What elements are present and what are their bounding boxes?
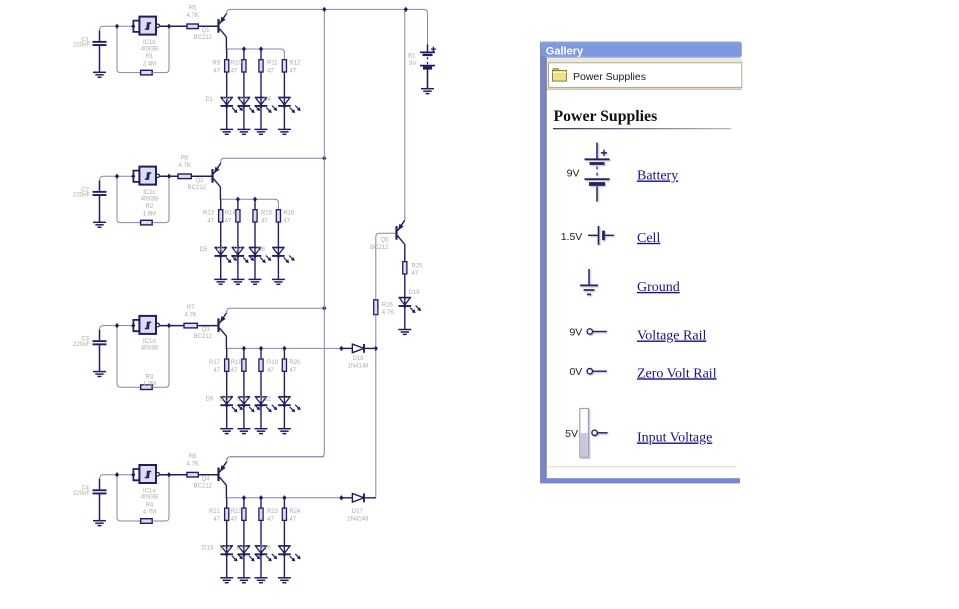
gallery folder icon bbox=[553, 69, 567, 81]
wire IC1a output to R8 to Q4 base bbox=[160, 474, 218, 476]
transistor Q4 BC212 PNP bbox=[219, 462, 227, 486]
svg-text:R9: R9 bbox=[212, 61, 220, 67]
LED D16 bbox=[278, 546, 291, 554]
transistor Q2 BC212 PNP bbox=[213, 163, 221, 187]
resistor R7 4.7K bbox=[184, 323, 197, 328]
svg-text:Battery: Battery bbox=[637, 169, 678, 184]
node junction Q5 emitter at top rail bbox=[404, 7, 408, 12]
LED D11 bbox=[255, 397, 268, 405]
capacitor C1 bbox=[93, 41, 107, 46]
LED D5 bbox=[214, 248, 227, 256]
svg-text:D8: D8 bbox=[257, 247, 265, 253]
svg-text:R23: R23 bbox=[267, 509, 279, 515]
node junction input IC2 bbox=[115, 174, 119, 179]
wire feedback right of R3 bbox=[152, 326, 169, 388]
wire Q3 emitter pin bbox=[226, 312, 228, 314]
ground below D8 bbox=[272, 279, 285, 284]
svg-text:9V: 9V bbox=[567, 167, 580, 179]
wire rail through R11 and D3 to ground bbox=[260, 49, 262, 129]
node junction rail 2 col3 bbox=[253, 197, 257, 202]
svg-text:R16: R16 bbox=[283, 211, 295, 217]
svg-text:D14: D14 bbox=[219, 546, 231, 552]
wire rail through R17 and D9 to ground bbox=[226, 348, 228, 428]
resistor R10 47 bbox=[242, 60, 246, 72]
svg-text:47: 47 bbox=[289, 368, 296, 374]
svg-text:R13: R13 bbox=[203, 211, 215, 217]
op-amp IC1a schmitt NAND gate 4093B bbox=[139, 465, 156, 483]
node junction rail 2 col2 bbox=[236, 197, 240, 202]
svg-text:47: 47 bbox=[225, 219, 232, 225]
svg-text:Ground: Ground bbox=[637, 280, 680, 295]
svg-text:9V: 9V bbox=[569, 327, 582, 339]
wire feedback left of R3 bbox=[117, 326, 141, 388]
node junction rail 3 col4 bbox=[282, 346, 286, 351]
svg-text:1N4148: 1N4148 bbox=[347, 516, 369, 522]
wire Q3 collector to LED rail 3 bbox=[225, 336, 227, 349]
svg-text:BC212: BC212 bbox=[370, 245, 389, 251]
ground below C2 bbox=[93, 222, 106, 227]
wire C2 top pin bbox=[99, 181, 101, 191]
resistor R17 47 bbox=[225, 359, 229, 371]
wire rail through R21 and D13 to ground bbox=[226, 498, 228, 578]
ground below B1 bbox=[421, 89, 434, 94]
svg-text:D15: D15 bbox=[236, 546, 248, 552]
transistor Q5 BC212 PNP bbox=[397, 220, 405, 244]
gallery symbol: cell 1.5V bbox=[588, 226, 614, 245]
node junction D17 anode bbox=[339, 495, 343, 500]
svg-text:R20: R20 bbox=[289, 360, 301, 366]
wire Q5 base to R26 bbox=[376, 233, 396, 299]
resistor R13 47 bbox=[219, 210, 223, 222]
gallery symbol: voltage rail 9V bbox=[587, 329, 607, 334]
wire R26 to steering diodes D18 D17 bbox=[375, 315, 377, 498]
node junction rail 1 col2 bbox=[242, 46, 246, 51]
wire rail through R16 and D8 to ground bbox=[277, 210, 279, 280]
svg-text:Q2: Q2 bbox=[195, 178, 204, 184]
svg-text:D2: D2 bbox=[223, 97, 231, 103]
ground below D7 bbox=[249, 279, 262, 284]
wire LED rail block 4 to steering diode bbox=[227, 497, 342, 499]
wire Q1 emitter pin bbox=[226, 12, 228, 15]
node junction output IC3 bbox=[167, 323, 171, 328]
wire C4 top pin bbox=[99, 479, 101, 489]
svg-text:0V: 0V bbox=[569, 366, 582, 378]
svg-text:47: 47 bbox=[213, 69, 220, 75]
capacitor C3 bbox=[93, 340, 107, 345]
svg-text:Gallery: Gallery bbox=[546, 46, 584, 58]
svg-text:R11: R11 bbox=[267, 61, 278, 67]
svg-text:Cell: Cell bbox=[637, 231, 660, 246]
svg-text:220nF: 220nF bbox=[73, 193, 90, 199]
ground below D14 bbox=[237, 578, 250, 583]
ground below D6 bbox=[231, 279, 244, 284]
svg-text:47: 47 bbox=[231, 69, 238, 75]
resistor R8 4.7K bbox=[187, 472, 198, 477]
resistor R2 1.8M feedback bbox=[141, 220, 153, 225]
node junction rail 4 col2 bbox=[242, 495, 246, 500]
node junction at IC1d input pins bbox=[131, 323, 135, 328]
svg-text:BC212: BC212 bbox=[194, 334, 213, 340]
wire cap C4 to ground bbox=[99, 494, 101, 521]
op-amp IC1d schmitt NAND gate 4093B bbox=[139, 316, 156, 334]
svg-text:IC1c: IC1c bbox=[143, 190, 155, 196]
wire Q1 collector to LED rail 1 bbox=[225, 37, 227, 50]
wire V+ top rail to battery B1 bbox=[227, 9, 428, 45]
svg-text:47: 47 bbox=[412, 271, 419, 277]
LED D4 bbox=[278, 98, 291, 106]
wire Q5 collector through R25 and D19 to ground bbox=[404, 244, 406, 330]
svg-text:R14: R14 bbox=[225, 211, 237, 217]
svg-text:D6: D6 bbox=[217, 247, 225, 253]
svg-text:47: 47 bbox=[289, 69, 296, 75]
svg-text:D16: D16 bbox=[260, 546, 272, 552]
svg-text:4.7K: 4.7K bbox=[382, 310, 394, 316]
svg-text:D19: D19 bbox=[408, 290, 420, 296]
svg-text:Q4: Q4 bbox=[201, 476, 210, 482]
wire D18 cathode to R26 net bbox=[364, 347, 376, 349]
node junction rail 4 col3 bbox=[259, 495, 263, 500]
node junction V+ rail block 3 bbox=[322, 306, 326, 311]
svg-text:Zero Volt Rail: Zero Volt Rail bbox=[637, 366, 717, 381]
node junction input IC1 bbox=[115, 24, 119, 29]
svg-text:47: 47 bbox=[207, 219, 214, 225]
LED D12 bbox=[278, 397, 291, 405]
ground below D3 bbox=[255, 129, 268, 134]
node junction input IC3 bbox=[115, 323, 119, 328]
wire cap C3 to IC input, net IN3 bbox=[100, 326, 134, 331]
wire IC1d output to R7 to Q3 base bbox=[160, 325, 218, 327]
resistor R21 47 bbox=[225, 508, 229, 520]
wire cap C1 to ground bbox=[99, 45, 101, 72]
resistor R3 1.3M feedback bbox=[141, 385, 153, 390]
capacitor C4 bbox=[93, 489, 107, 494]
svg-text:9V: 9V bbox=[409, 61, 416, 67]
node junction V+ rail block 2 bbox=[322, 156, 326, 161]
svg-text:D13: D13 bbox=[202, 546, 214, 552]
node junction input IC4 bbox=[115, 472, 119, 477]
wire rail through R19 and D11 to ground bbox=[260, 348, 262, 428]
node junction output IC1 bbox=[167, 24, 171, 29]
wire rail through R12 and D4 to ground bbox=[283, 60, 285, 130]
resistor R1 2.4M feedback bbox=[141, 70, 153, 75]
wire Q4 emitter pin bbox=[226, 460, 228, 462]
svg-text:BC212: BC212 bbox=[194, 483, 213, 489]
svg-text:1.8M: 1.8M bbox=[143, 211, 156, 217]
gallery window frame bbox=[540, 42, 742, 484]
svg-text:Input Voltage: Input Voltage bbox=[637, 431, 712, 446]
svg-text:R8: R8 bbox=[189, 454, 197, 460]
gallery symbol: battery 9V bbox=[585, 143, 610, 202]
node junction output IC4 bbox=[167, 472, 171, 477]
resistor R26 4.7K bbox=[374, 300, 378, 315]
svg-text:R17: R17 bbox=[209, 360, 221, 366]
resistor R20 47 bbox=[282, 359, 286, 371]
wire IC1c output to R6 to Q2 base bbox=[160, 175, 212, 177]
wire feedback left of R4 bbox=[117, 475, 141, 521]
ground below D15 bbox=[255, 578, 268, 583]
resistor R6 4.7K bbox=[178, 174, 191, 179]
diode D17 1N4148 bbox=[352, 493, 364, 502]
svg-text:R25: R25 bbox=[412, 263, 424, 269]
node junction rail 3 col3 bbox=[259, 346, 263, 351]
svg-text:47: 47 bbox=[261, 219, 268, 225]
wire cap C2 to ground bbox=[99, 195, 101, 222]
wire C1 top pin bbox=[99, 31, 101, 41]
svg-text:47: 47 bbox=[267, 368, 274, 374]
node junction rail 3 col2 bbox=[242, 346, 246, 351]
resistor R16 47 bbox=[276, 210, 280, 222]
svg-text:D12: D12 bbox=[260, 397, 272, 403]
wire D18 anode pin bbox=[341, 347, 352, 349]
diode D18 1N4148 bbox=[352, 344, 364, 353]
resistor R24 47 bbox=[282, 508, 286, 520]
wire rail through R18 and D10 to ground bbox=[243, 348, 245, 428]
svg-text:47: 47 bbox=[289, 517, 296, 523]
node junction rail 4 col4 bbox=[282, 495, 286, 500]
svg-text:R2: R2 bbox=[146, 204, 154, 210]
ground below C4 bbox=[93, 521, 106, 526]
svg-text:D5: D5 bbox=[200, 247, 208, 253]
LED D19 bbox=[399, 298, 412, 306]
svg-text:D3: D3 bbox=[240, 97, 248, 103]
resistor R11 47 bbox=[259, 60, 263, 72]
svg-text:R1: R1 bbox=[146, 54, 154, 60]
ground below D11 bbox=[255, 429, 268, 434]
svg-text:1.5V: 1.5V bbox=[561, 231, 583, 243]
wire feedback left of R2 bbox=[117, 176, 141, 222]
svg-text:4.7K: 4.7K bbox=[178, 163, 190, 169]
svg-text:R19: R19 bbox=[267, 360, 279, 366]
wire rail through R10 and D2 to ground bbox=[243, 49, 245, 129]
LED D3 bbox=[255, 98, 268, 106]
svg-text:R5: R5 bbox=[189, 6, 197, 12]
svg-text:BC212: BC212 bbox=[188, 185, 207, 191]
svg-text:47: 47 bbox=[213, 517, 220, 523]
wire battery B1 to ground bbox=[427, 68, 429, 88]
resistor R12 47 bbox=[282, 60, 286, 72]
wire LED rail block 3 to steering diode bbox=[227, 347, 342, 349]
svg-text:B1: B1 bbox=[408, 54, 416, 60]
wire V+ to Q5 emitter bbox=[404, 9, 406, 220]
svg-text:R24: R24 bbox=[289, 509, 301, 515]
wire Q2 emitter to V+ rail bbox=[221, 158, 325, 163]
resistor R25 47 bbox=[403, 262, 407, 274]
battery B1 9V bbox=[420, 52, 435, 68]
resistor R9 47 bbox=[225, 60, 229, 72]
svg-text:R26: R26 bbox=[382, 302, 394, 308]
wire feedback left of R1 bbox=[117, 26, 141, 72]
wire rail through R20 and D12 to ground bbox=[283, 348, 285, 428]
transistor Q3 BC212 PNP bbox=[219, 313, 227, 337]
ground below D5 bbox=[214, 279, 227, 284]
LED D8 bbox=[272, 248, 285, 256]
svg-text:Q1: Q1 bbox=[201, 28, 210, 34]
svg-text:D1: D1 bbox=[206, 97, 214, 103]
resistor R18 47 bbox=[242, 359, 246, 371]
node junction D18 cathode on R26 net bbox=[374, 346, 378, 351]
node junction rail 1 col3 bbox=[259, 46, 263, 51]
svg-text:47: 47 bbox=[231, 517, 238, 523]
LED D15 bbox=[255, 546, 268, 554]
svg-text:220nF: 220nF bbox=[73, 43, 90, 49]
svg-text:1N4148: 1N4148 bbox=[347, 363, 369, 369]
transistor Q1 BC212 PNP bbox=[219, 13, 227, 37]
svg-text:4093B: 4093B bbox=[141, 46, 158, 52]
wire rail through R24 and D16 to ground bbox=[283, 498, 285, 578]
svg-text:2.4M: 2.4M bbox=[143, 61, 156, 67]
svg-text:D11: D11 bbox=[237, 397, 248, 403]
svg-text:R15: R15 bbox=[261, 211, 273, 217]
LED D6 bbox=[232, 248, 245, 256]
svg-text:D4: D4 bbox=[263, 97, 271, 103]
ground below C1 bbox=[93, 72, 106, 77]
ground below D13 bbox=[220, 578, 233, 583]
wire battery B1 top pin bbox=[427, 45, 429, 53]
svg-text:R4: R4 bbox=[146, 503, 154, 509]
LED D14 bbox=[238, 546, 251, 554]
wire cap C4 to IC input, net IN4 bbox=[100, 475, 134, 480]
LED D2 bbox=[238, 98, 251, 106]
svg-text:Voltage Rail: Voltage Rail bbox=[637, 329, 706, 344]
svg-text:220nF: 220nF bbox=[73, 342, 90, 348]
wire Q2 emitter pin bbox=[220, 162, 222, 165]
svg-text:Q5: Q5 bbox=[380, 238, 389, 244]
wire feedback right of R1 bbox=[152, 26, 169, 72]
LED D10 bbox=[238, 397, 251, 405]
ground below D16 bbox=[278, 578, 291, 583]
resistor R5 4.7K bbox=[187, 24, 198, 29]
node junction V+ rail at top bbox=[322, 7, 326, 12]
svg-text:47: 47 bbox=[267, 517, 274, 523]
svg-text:IC1a: IC1a bbox=[143, 488, 156, 494]
wire rail through R13 and D5 to ground bbox=[220, 199, 222, 279]
wire Q4 collector to LED rail 4 bbox=[225, 485, 227, 498]
gallery toolbar combo box bbox=[549, 63, 742, 88]
gallery symbol: input voltage 5V slider bbox=[580, 409, 608, 458]
svg-text:R6: R6 bbox=[181, 156, 189, 162]
gallery toolbar divider bbox=[547, 89, 742, 90]
svg-text:R12: R12 bbox=[289, 61, 301, 67]
wire D17 anode pin bbox=[341, 497, 352, 499]
svg-text:Power Supplies: Power Supplies bbox=[573, 71, 646, 83]
node junction at IC1c input pins bbox=[131, 174, 135, 179]
svg-text:1.3M: 1.3M bbox=[143, 382, 156, 388]
svg-text:R22: R22 bbox=[231, 509, 243, 515]
svg-text:4.7K: 4.7K bbox=[186, 13, 198, 19]
op-amp IC1c schmitt NAND gate 4093B bbox=[139, 167, 156, 185]
LED D13 bbox=[220, 546, 233, 554]
svg-text:4.7M: 4.7M bbox=[143, 510, 156, 516]
ground below D10 bbox=[237, 429, 250, 434]
ground below D1 bbox=[220, 129, 233, 134]
svg-text:IC1d: IC1d bbox=[143, 339, 156, 345]
svg-text:47: 47 bbox=[267, 69, 274, 75]
ground below D12 bbox=[278, 429, 291, 434]
wire rail through R15 and D7 to ground bbox=[254, 199, 256, 279]
svg-text:220nF: 220nF bbox=[73, 491, 90, 497]
svg-text:D18: D18 bbox=[352, 356, 364, 362]
wire LED rail block 1 bbox=[227, 49, 285, 60]
resistor R23 47 bbox=[259, 508, 263, 520]
wire Q4 emitter to V+ rail bbox=[227, 457, 325, 462]
resistor R19 47 bbox=[259, 359, 263, 371]
svg-text:R21: R21 bbox=[209, 509, 221, 515]
wire C3 top pin bbox=[99, 330, 101, 340]
svg-text:47: 47 bbox=[213, 368, 220, 374]
resistor R4 4.7M feedback bbox=[141, 519, 153, 524]
wire Q2 collector to LED rail 2 bbox=[219, 187, 221, 200]
gallery symbol: zero volt rail 0V bbox=[587, 369, 607, 374]
ground below D2 bbox=[237, 129, 250, 134]
wire feedback right of R2 bbox=[152, 176, 169, 222]
wire rail through R23 and D15 to ground bbox=[260, 498, 262, 578]
node junction D18 anode bbox=[339, 346, 343, 351]
ground below C3 bbox=[93, 372, 106, 377]
LED D9 bbox=[220, 397, 233, 405]
svg-text:R3: R3 bbox=[146, 374, 154, 380]
svg-text:D10: D10 bbox=[219, 397, 231, 403]
wire rail through R14 and D6 to ground bbox=[237, 199, 239, 279]
wire rail through R9 and D1 to ground bbox=[226, 49, 228, 129]
ground below D9 bbox=[220, 429, 233, 434]
wire IC1b output to R5 to Q1 base bbox=[160, 25, 218, 27]
resistor R22 47 bbox=[242, 508, 246, 520]
svg-text:4093B: 4093B bbox=[141, 196, 158, 202]
svg-text:Q3: Q3 bbox=[201, 327, 210, 333]
resistor R14 47 bbox=[236, 210, 240, 222]
svg-text:5V: 5V bbox=[565, 428, 578, 440]
svg-text:R7: R7 bbox=[187, 305, 195, 311]
svg-text:47: 47 bbox=[231, 368, 238, 374]
wire rail through R22 and D14 to ground bbox=[243, 498, 245, 578]
svg-text:IC1b: IC1b bbox=[143, 40, 156, 46]
LED D1 bbox=[220, 98, 233, 106]
capacitor C2 bbox=[93, 191, 107, 196]
wire cap C2 to IC input, net IN2 bbox=[100, 176, 134, 181]
wire cap C3 to ground bbox=[99, 344, 101, 371]
node junction at IC1b input pins bbox=[131, 24, 135, 29]
svg-text:D17: D17 bbox=[352, 509, 364, 515]
svg-text:BC212: BC212 bbox=[194, 35, 213, 41]
node junction output IC2 bbox=[167, 174, 171, 179]
wire D17 cathode to R26 net bbox=[364, 497, 376, 499]
wire Q3 emitter to V+ rail bbox=[227, 308, 325, 313]
svg-text:4.7K: 4.7K bbox=[184, 312, 196, 318]
svg-text:4093B: 4093B bbox=[141, 346, 158, 352]
node junction at IC1a input pins bbox=[131, 472, 135, 477]
svg-text:D9: D9 bbox=[206, 397, 214, 403]
ground below D4 bbox=[278, 129, 291, 134]
gallery symbol: ground bbox=[580, 269, 598, 294]
svg-text:47: 47 bbox=[283, 219, 290, 225]
svg-text:4093B: 4093B bbox=[141, 495, 158, 501]
ground below D19 bbox=[398, 330, 411, 335]
wire V+ vertical rail bbox=[230, 9, 324, 456]
wire cap C1 to IC input, net IN1 bbox=[100, 26, 134, 31]
svg-text:4.7K: 4.7K bbox=[186, 461, 198, 467]
svg-text:R18: R18 bbox=[231, 360, 243, 366]
resistor R15 47 bbox=[253, 210, 257, 222]
svg-text:Power Supplies: Power Supplies bbox=[554, 108, 658, 125]
wire LED rail block 2 bbox=[221, 199, 279, 209]
op-amp IC1b schmitt NAND gate 4093B bbox=[139, 17, 156, 35]
LED D7 bbox=[249, 248, 262, 256]
svg-text:R10: R10 bbox=[231, 61, 243, 67]
svg-text:D7: D7 bbox=[234, 247, 242, 253]
wire feedback right of R4 bbox=[152, 475, 169, 521]
